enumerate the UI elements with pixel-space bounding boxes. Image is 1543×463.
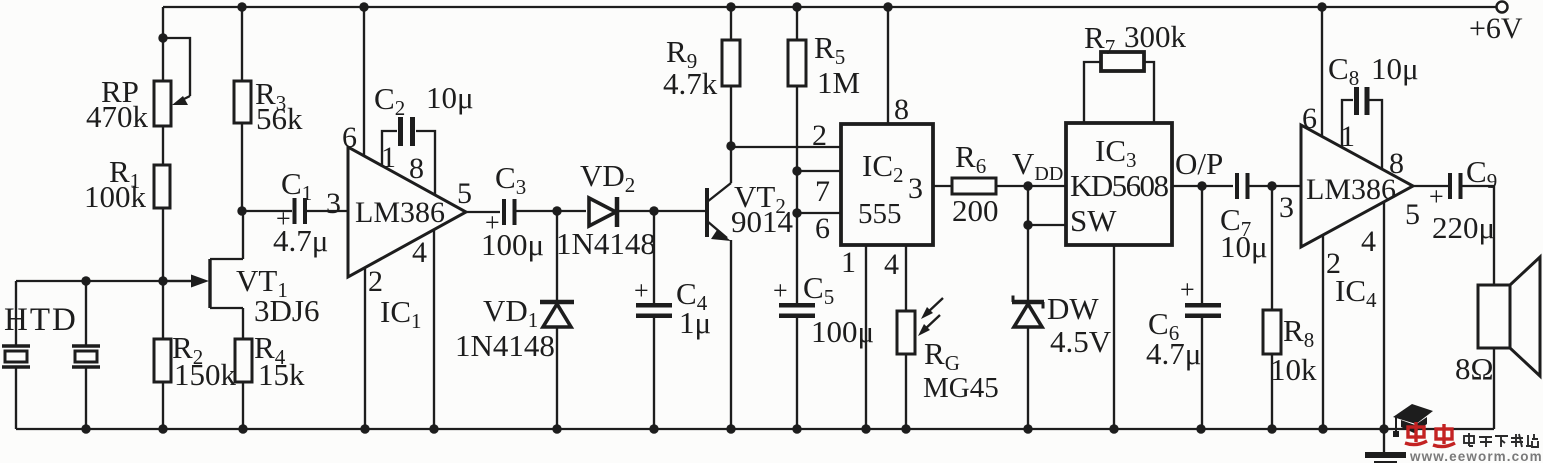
svg-text:4.7μ: 4.7μ xyxy=(1146,336,1201,371)
wire IC4 pin 5 output xyxy=(1405,186,1448,231)
wire bottom ground rail xyxy=(16,428,1494,430)
svg-text:220μ: 220μ xyxy=(1432,210,1495,245)
svg-text:3: 3 xyxy=(908,172,923,205)
wire SW branch to IC3 xyxy=(1028,224,1066,226)
wire 555 pin 4 to RG xyxy=(905,245,907,311)
svg-text:8: 8 xyxy=(894,93,909,126)
svg-text:5: 5 xyxy=(457,177,472,210)
svg-text:4: 4 xyxy=(412,236,427,269)
zener diode DW 4.5V xyxy=(1012,291,1112,429)
svg-text:3DJ6: 3DJ6 xyxy=(254,293,319,328)
svg-text:4.7k: 4.7k xyxy=(663,66,718,101)
node VD2 output junction xyxy=(649,206,658,215)
svg-text:1: 1 xyxy=(841,246,856,279)
sensor HTD element 2 xyxy=(4,302,100,367)
svg-text:6: 6 xyxy=(342,121,357,154)
sensor HTD element 1 xyxy=(2,346,30,367)
svg-text:2: 2 xyxy=(1326,247,1341,280)
svg-text:1N4148: 1N4148 xyxy=(556,226,656,261)
svg-text:4: 4 xyxy=(884,248,899,281)
wire IC1 pin 5 output xyxy=(457,177,500,212)
svg-text:6: 6 xyxy=(815,212,830,245)
svg-text:2: 2 xyxy=(812,119,827,152)
node HTD2 top xyxy=(81,276,90,285)
resistor R3 xyxy=(234,76,303,136)
svg-text:9014: 9014 xyxy=(731,204,794,239)
svg-text:300k: 300k xyxy=(1124,19,1187,54)
svg-text:+: + xyxy=(1180,275,1195,304)
node R5 top rail xyxy=(792,2,801,11)
svg-text:10μ: 10μ xyxy=(426,80,474,115)
wire HTD input row xyxy=(16,280,194,282)
node dots on ground rail xyxy=(81,424,1388,433)
wire IC3 bottom pin to ground rail xyxy=(1113,245,1115,429)
svg-text:1N4148: 1N4148 xyxy=(455,328,555,363)
wire VT1 drain up to node xyxy=(242,211,244,259)
wire HTD left column xyxy=(15,281,17,429)
svg-text:100k: 100k xyxy=(84,179,147,214)
svg-text:470k: 470k xyxy=(86,99,149,134)
svg-text:HTD: HTD xyxy=(4,302,78,338)
wire collector node to 555 pin 2 xyxy=(731,146,841,148)
wire R8 to ground rail xyxy=(1271,354,1273,429)
wire C9 to speaker xyxy=(1462,186,1494,285)
wire C3 to VD2 xyxy=(516,210,586,212)
power terminal +6V xyxy=(1469,2,1523,46)
svg-text:+: + xyxy=(773,276,788,305)
node VD1 junction xyxy=(552,206,561,215)
svg-text:150k: 150k xyxy=(174,357,237,392)
svg-text:3: 3 xyxy=(1279,191,1294,224)
op-amp U2 LM386 (IC4) xyxy=(1301,125,1413,312)
resistor R8 10k xyxy=(1263,310,1317,387)
svg-text:7: 7 xyxy=(815,175,830,208)
svg-text:555: 555 xyxy=(858,198,902,230)
svg-text:1: 1 xyxy=(1340,120,1355,153)
svg-text:+: + xyxy=(1429,182,1444,211)
node RP top junction xyxy=(158,33,167,42)
wire IC4 pin 2 to ground rail xyxy=(1323,235,1341,429)
wire R4 to ground rail xyxy=(242,382,244,429)
transistor VT1 3DJ6 xyxy=(163,259,319,328)
svg-text:KD5608: KD5608 xyxy=(1070,168,1169,203)
wire R1 to gate row xyxy=(162,208,164,281)
wire RG to ground rail xyxy=(905,354,907,429)
svg-text:www.eeworm.com: www.eeworm.com xyxy=(1409,449,1543,463)
svg-text:LM386: LM386 xyxy=(1306,173,1396,206)
wire VDD column down to DW xyxy=(1027,225,1029,301)
ground symbol xyxy=(1365,429,1406,463)
wire IC1 pin 4 to ground rail xyxy=(412,230,434,429)
capacitor C7 10u xyxy=(1220,173,1268,264)
wire IC4 pin 4 to ground rail xyxy=(1361,202,1384,429)
wire R5 bottom to pin7/pin6 column xyxy=(796,86,798,303)
svg-text:4.5V: 4.5V xyxy=(1050,324,1112,359)
svg-text:LM386: LM386 xyxy=(355,196,445,229)
wire speaker to ground rail xyxy=(1493,348,1495,429)
node R8 junction xyxy=(1267,181,1276,190)
potentiometer RP xyxy=(86,38,190,134)
capacitor C8 10u across pins 1 and 8 xyxy=(1328,51,1419,180)
svg-text:4: 4 xyxy=(1361,225,1376,258)
svg-text:O/P: O/P xyxy=(1175,146,1223,181)
wire rail to 555 pin 8 xyxy=(887,7,889,124)
svg-text:1μ: 1μ xyxy=(679,305,711,340)
wire to 555 pin 6 xyxy=(797,212,841,214)
resistor R5 xyxy=(788,30,860,100)
svg-text:100μ: 100μ xyxy=(481,227,544,262)
wire HTD2 column xyxy=(85,281,87,429)
node C6 junction xyxy=(1197,181,1206,190)
node VDD junction xyxy=(1023,181,1032,190)
capacitor C6 4.7u xyxy=(1146,186,1221,429)
svg-text:100μ: 100μ xyxy=(811,314,874,349)
svg-text:8: 8 xyxy=(1389,147,1404,180)
svg-text:56k: 56k xyxy=(256,101,303,136)
node R9 top rail xyxy=(726,2,735,11)
wire R2 to ground rail xyxy=(162,382,164,429)
watermark red chongchong characters xyxy=(1405,422,1455,447)
node pin6 junction xyxy=(792,208,801,217)
capacitor C2 10u across pins 1 and 8 xyxy=(374,80,474,195)
svg-text:2: 2 xyxy=(368,265,383,298)
wire rail to R3 xyxy=(241,7,243,81)
node R3 top rail xyxy=(237,2,246,11)
svg-text:6: 6 xyxy=(1302,102,1317,135)
resistor R2 xyxy=(154,330,237,392)
svg-text:8: 8 xyxy=(409,152,424,185)
wire rail to R9 xyxy=(730,7,732,40)
svg-text:10k: 10k xyxy=(1270,352,1317,387)
resistor R7 300k feedback xyxy=(1084,19,1187,123)
wire node to C1 xyxy=(242,210,292,212)
wire C1 to pin 3 xyxy=(307,210,348,212)
wire VT1 source down to R4 xyxy=(242,308,244,339)
node SW junction xyxy=(1023,220,1032,229)
capacitor C3 100u xyxy=(481,160,544,262)
wire VT2 emitter to ground rail xyxy=(730,240,732,429)
resistor R1 xyxy=(84,154,170,214)
resistor R6 200 xyxy=(952,139,999,228)
svg-text:MG45: MG45 xyxy=(923,372,999,404)
wire IC1 pin 2 to ground rail xyxy=(365,265,383,429)
wire left rail drop to RP xyxy=(162,7,164,81)
svg-text:200: 200 xyxy=(952,193,999,228)
svg-text:3: 3 xyxy=(326,187,341,220)
wire VDD to SW branch xyxy=(1027,186,1029,225)
resistor R9 xyxy=(663,34,740,101)
svg-text:1: 1 xyxy=(381,141,396,174)
svg-text:8Ω: 8Ω xyxy=(1455,351,1494,386)
node collector junction xyxy=(726,141,735,150)
wire R6 to IC3 VDD pin xyxy=(996,185,1066,187)
svg-text:5: 5 xyxy=(1405,198,1420,231)
wire VT2 collector up xyxy=(730,87,732,183)
wire to 555 pin 7 xyxy=(797,170,841,172)
wire 555 pin 3 to R6 xyxy=(933,185,952,187)
capacitor C5 100u xyxy=(773,270,874,429)
timer IC2 555 xyxy=(812,93,933,281)
svg-text:+: + xyxy=(634,276,649,305)
svg-text:1M: 1M xyxy=(817,65,860,100)
capacitor C1 4.7u xyxy=(273,166,328,258)
wire IC4 pin 6 from rail xyxy=(1302,2,1327,137)
node 555 pin 8 rail xyxy=(883,2,892,11)
transistor VT2 9014 xyxy=(654,179,794,241)
wire IC3 O/P output xyxy=(1172,146,1233,186)
wire IC1 pin 6 from rail xyxy=(342,2,369,156)
capacitor C4 1u xyxy=(634,211,711,429)
IC3 KD5608 xyxy=(1066,123,1172,245)
wire R3 to C1 node xyxy=(241,123,243,211)
svg-text:+6V: +6V xyxy=(1469,12,1523,45)
wire top supply rail xyxy=(163,6,1497,8)
diode VD2 1N4148 xyxy=(556,158,656,261)
svg-text:DW: DW xyxy=(1047,291,1099,326)
wire R2 top xyxy=(162,281,164,339)
wire node to R8 xyxy=(1271,186,1273,310)
node gate row junction xyxy=(158,276,167,285)
photoresistor RG MG45 xyxy=(897,298,999,404)
wire rail to R5 xyxy=(796,7,798,40)
diode VD1 1N4148 xyxy=(455,211,574,429)
resistor R4 xyxy=(235,330,305,392)
capacitor C9 220u xyxy=(1429,154,1497,245)
svg-text:10μ: 10μ xyxy=(1220,229,1268,264)
svg-text:SW: SW xyxy=(1070,203,1117,238)
op-amp U1 LM386 (IC1) xyxy=(348,147,466,333)
wire 555 pin 1 to ground rail xyxy=(865,245,867,429)
node pin7 junction xyxy=(792,166,801,175)
watermark site name glyphs xyxy=(1464,433,1538,447)
svg-text:4.7μ: 4.7μ xyxy=(273,223,328,258)
node C1 junction xyxy=(237,206,246,215)
speaker 8 ohm xyxy=(1455,257,1540,386)
svg-text:10μ: 10μ xyxy=(1371,51,1419,86)
watermark graduation cap icon xyxy=(1393,404,1433,437)
wire C7 to IC4 pin 3 xyxy=(1249,185,1301,187)
svg-text:15k: 15k xyxy=(258,357,305,392)
wire RP to R1 xyxy=(162,126,164,165)
